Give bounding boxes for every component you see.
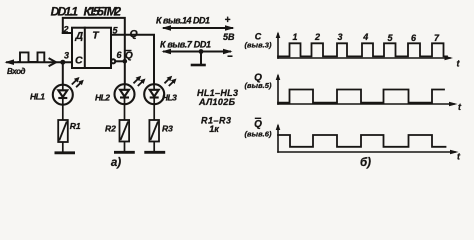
svg-text:+: + [225, 15, 231, 26]
svg-text:HL3: HL3 [162, 92, 177, 102]
svg-text:HL1: HL1 [30, 91, 45, 101]
svg-text:3: 3 [64, 50, 69, 60]
svg-text:2: 2 [314, 32, 320, 42]
svg-text:(выв.5): (выв.5) [245, 81, 273, 90]
svg-text:DD1.1: DD1.1 [51, 5, 79, 19]
svg-text:R2: R2 [105, 124, 116, 134]
svg-text:5В: 5В [223, 32, 235, 42]
svg-text:Вход: Вход [7, 67, 26, 76]
svg-text:К155ТМ2: К155ТМ2 [84, 5, 122, 19]
svg-text:Q: Q [130, 28, 138, 40]
svg-text:АЛ102Б: АЛ102Б [198, 97, 236, 107]
svg-text:R3: R3 [162, 124, 173, 134]
svg-text:б): б) [360, 157, 371, 169]
svg-text:(выв.3): (выв.3) [245, 40, 273, 49]
svg-text:Q: Q [254, 119, 262, 130]
svg-text:(выв.6): (выв.6) [245, 129, 273, 138]
svg-text:Д: Д [75, 30, 84, 42]
svg-text:2: 2 [63, 24, 69, 34]
svg-text:1: 1 [292, 32, 297, 42]
svg-text:3: 3 [337, 32, 342, 42]
svg-text:С: С [75, 54, 83, 66]
svg-text:R1: R1 [70, 121, 81, 131]
svg-text:а): а) [111, 157, 121, 169]
svg-text:К выв.14 DD1: К выв.14 DD1 [156, 16, 210, 26]
svg-text:HL2: HL2 [95, 93, 110, 103]
svg-text:1к: 1к [209, 124, 219, 134]
svg-text:Q: Q [125, 51, 133, 62]
svg-text:4: 4 [362, 32, 368, 42]
svg-text:К выв.7 DD1: К выв.7 DD1 [160, 39, 211, 49]
